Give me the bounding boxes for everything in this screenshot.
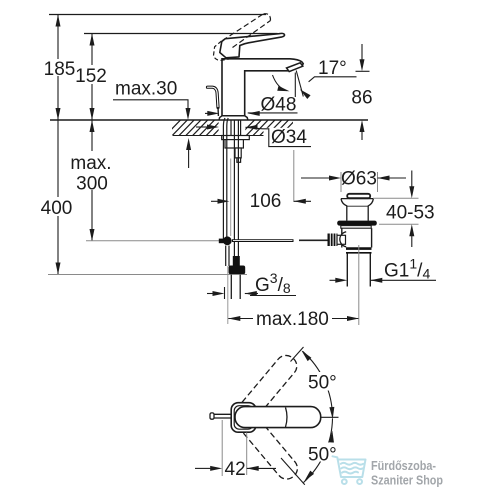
- bottom arc arrowhead at 50: [302, 471, 314, 483]
- arrow up to counter bottom: [186, 138, 191, 150]
- O48 underline (tail): [248, 112, 298, 114]
- G3/8 thread left: [230, 275, 232, 300]
- leader arrowhead: [298, 87, 310, 99]
- counter bottom line: [173, 135, 293, 137]
- left arrow (points left): [228, 316, 240, 321]
- angle arc: [273, 75, 287, 91]
- pop-up rod J-hook outline: [208, 87, 219, 107]
- svg-text:40-53: 40-53: [386, 203, 435, 224]
- angle arc top: [303, 351, 333, 416]
- arrow down to tick: [360, 59, 365, 71]
- svg-text:152: 152: [75, 66, 107, 87]
- svg-text:17°: 17°: [318, 58, 347, 79]
- underline / right tail: [370, 279, 436, 281]
- right tail: [247, 467, 276, 469]
- top tail: [411, 171, 413, 188]
- handle solid: [235, 407, 321, 428]
- arrow down: [409, 186, 414, 198]
- left arrow: [218, 199, 230, 204]
- drain centerline: [358, 245, 360, 325]
- waste head sides (taper): [341, 199, 373, 221]
- lever raised dashed edge 2: [233, 21, 271, 48]
- head inner line: [347, 205, 368, 207]
- tailpipe left: [346, 254, 348, 287]
- collar lower line: [346, 252, 372, 254]
- G3/8 right tail: [245, 293, 258, 295]
- rod pipe below ball: [225, 246, 227, 267]
- left tail: [211, 200, 218, 202]
- horizontal rod segment 1 core: [233, 240, 293, 242]
- svg-text:106: 106: [250, 191, 282, 212]
- right arrow: [246, 125, 258, 130]
- hatch left block: [165, 120, 229, 137]
- left tail: [330, 279, 336, 281]
- spout nub: [214, 414, 232, 418]
- 17 underline + leader: [309, 77, 357, 82]
- pop-up rod pipe below counter (two lines): [223, 118, 225, 239]
- nut step 1: [225, 140, 243, 148]
- left arrow: [335, 278, 347, 283]
- top arc arrowhead at 0: [329, 407, 335, 419]
- arrow down at popup rod line (max300): [90, 229, 95, 241]
- max.30 underline + leader: [113, 100, 188, 108]
- ext line left: [221, 420, 223, 476]
- arrow up at 152 datum: [90, 34, 95, 46]
- G3/8 left tail: [207, 293, 213, 295]
- arrow down at hose end line (400): [56, 263, 61, 275]
- hatch right block: [239, 120, 303, 137]
- body inner: [234, 406, 253, 430]
- ext line along -50 dir (bottom): [281, 458, 305, 485]
- O63 left arrow: [329, 176, 341, 181]
- hose crimp: [233, 256, 240, 266]
- svg-text:50°: 50°: [308, 373, 337, 394]
- O63 ext line right: [377, 172, 379, 192]
- rod lower part above base: [217, 107, 219, 116]
- ball joint: [223, 236, 232, 245]
- lever raised dashed edge 1: [223, 14, 264, 41]
- left arrow: [207, 111, 219, 116]
- arc arrowhead: [277, 86, 290, 94]
- washer plate: [222, 136, 250, 140]
- svg-text:Fürdőszoba-: Fürdőszoba-: [371, 459, 436, 473]
- ext line to max300 (left): [86, 240, 220, 242]
- G3/8 thread right: [239, 275, 241, 300]
- tail below counter bottom arrow: [188, 150, 190, 168]
- svg-text:max.30: max.30: [115, 79, 177, 100]
- supply hose pipe (two lines): [233, 120, 235, 257]
- tail above: [361, 44, 363, 60]
- centerline between pipes: [230, 159, 232, 237]
- arrow down at counter (185): [56, 108, 61, 120]
- O63 left tail: [301, 177, 330, 179]
- label O34 white backing: [264, 128, 312, 146]
- right arrow: [248, 111, 260, 116]
- shank edges in hole: [230, 120, 232, 136]
- base flange: [219, 116, 248, 120]
- arrow up below counter (max300): [90, 120, 95, 132]
- ref line 152 datum: [84, 33, 278, 35]
- dim line segments x58: [57, 15, 59, 275]
- dashed handle down 50: [230, 404, 301, 483]
- left tail: [205, 112, 208, 114]
- waste head top: [341, 198, 373, 200]
- arrow down at counter (152): [90, 108, 95, 120]
- cart icon: [333, 456, 366, 484]
- horizontal rod segment 2: [299, 239, 328, 241]
- right arrow (points right): [347, 316, 359, 321]
- pop-up rod J-hook core: [208, 87, 219, 107]
- arrow down to counter top: [186, 108, 191, 120]
- leader to label: [246, 127, 312, 146]
- hose nut: [229, 266, 246, 275]
- nut step 2: [235, 148, 241, 158]
- centerline below ball: [227, 266, 229, 324]
- top ext line: [373, 197, 419, 199]
- handle division line: [286, 408, 288, 428]
- svg-text:400: 400: [41, 198, 73, 219]
- label 50 bottom backing: [305, 443, 345, 462]
- horizontal rod segment 1 outline: [232, 239, 294, 242]
- svg-text:185: 185: [44, 59, 76, 80]
- lever raised dashed boss: [213, 41, 232, 60]
- left arrow: [210, 466, 222, 471]
- left tail: [195, 467, 211, 469]
- svg-text:Ø63: Ø63: [341, 169, 377, 190]
- plug disc: [347, 194, 370, 198]
- svg-text:max.180: max.180: [256, 309, 329, 330]
- lever raised dashed tip: [264, 14, 271, 21]
- svg-text:300: 300: [76, 174, 108, 195]
- ref line 400 bottom: [48, 274, 247, 276]
- arrow up at top datum: [56, 15, 61, 27]
- top arc arrowhead at 50: [300, 349, 312, 361]
- small tick left of thread: [224, 287, 226, 299]
- svg-text:42: 42: [225, 459, 246, 480]
- O63 ext line left: [340, 172, 342, 192]
- aerator at spout tip: [287, 63, 303, 72]
- tailpipe right: [369, 254, 371, 287]
- knurled nut: [328, 234, 338, 247]
- ext line along +50 dir (top): [291, 347, 304, 362]
- pivot boss arc: [340, 232, 346, 247]
- label 50 top backing: [305, 372, 345, 391]
- right arrow: [294, 199, 306, 204]
- bottom tail: [411, 236, 413, 247]
- right arrow: [370, 278, 382, 283]
- nut step 3: [237, 158, 241, 162]
- flange lip: [341, 226, 371, 229]
- spout nub end cap: [210, 413, 214, 419]
- lever handle solid: [220, 33, 285, 57]
- O63 right tail: [378, 177, 407, 179]
- centerline right: [321, 416, 339, 418]
- dashed handle up 50: [230, 351, 301, 430]
- bottom arc arrowhead at 0: [329, 430, 335, 442]
- body + spout outline: [222, 59, 303, 116]
- right arrow: [247, 466, 259, 471]
- ext line below O34 label: [293, 150, 295, 202]
- vertical ref line from aerator: [294, 73, 296, 98]
- waste body left: [341, 228, 343, 247]
- arrow up: [409, 224, 414, 236]
- svg-text:50°: 50°: [308, 445, 337, 466]
- pivot connector: [337, 235, 346, 244]
- counter top surface line: [50, 119, 368, 121]
- ext line right: [246, 433, 248, 476]
- body outer: [231, 403, 256, 433]
- svg-text:max.: max.: [70, 153, 111, 174]
- left segment: [228, 318, 253, 320]
- top tick at aerator level: [356, 70, 370, 72]
- left tail: [196, 126, 207, 128]
- G3/8 left arrow: [213, 291, 225, 296]
- G3/8 underline: [250, 295, 296, 297]
- right tail: [294, 200, 311, 202]
- ref line top (185/400 datum): [49, 14, 266, 16]
- O63 right arrow: [378, 176, 390, 181]
- svg-text:Szaniter Shop: Szaniter Shop: [371, 474, 443, 488]
- knurl white lines: [330, 234, 336, 247]
- right segment: [332, 318, 359, 320]
- flange seal (black): [337, 221, 377, 226]
- svg-text:86: 86: [351, 88, 372, 109]
- svg-text:Ø34: Ø34: [271, 127, 307, 148]
- bottom ext line: [379, 223, 419, 225]
- left arrow: [207, 125, 219, 130]
- arrow up to counter: [360, 120, 365, 132]
- slanted stream line: [296, 71, 303, 97]
- tail below: [361, 132, 363, 140]
- angle arc bottom: [304, 419, 333, 483]
- collar top band: [346, 247, 372, 250]
- ball joint stub: [219, 239, 228, 244]
- waste body right: [371, 228, 373, 247]
- G3/8 right arrow: [245, 291, 257, 296]
